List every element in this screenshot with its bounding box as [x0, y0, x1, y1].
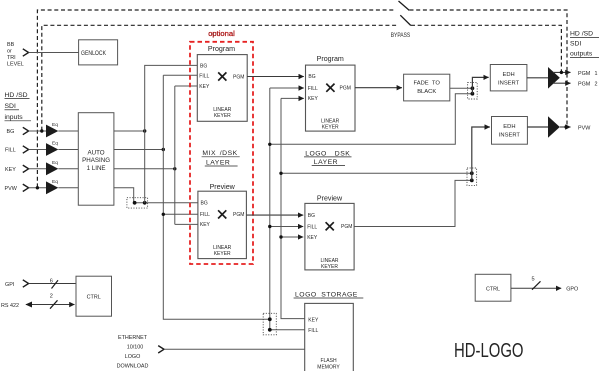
svg-text:FADE TO: FADE TO	[414, 80, 441, 86]
wire key bypass branch to PVW jumper	[281, 172, 472, 174]
svg-text:SDI: SDI	[570, 41, 581, 48]
wire preview2 PGM to PVW jumper	[354, 180, 472, 226]
wire ethernet to flash	[164, 348, 305, 350]
wire FILL to program1	[163, 74, 197, 76]
svg-text:BG: BG	[7, 129, 15, 135]
op keyer preview box	[198, 191, 247, 258]
junction dot flash fill	[268, 328, 272, 332]
wire BG input	[29, 130, 46, 132]
bypass outer dashed path (PVW bypass)	[37, 10, 567, 187]
svg-text:Program: Program	[317, 55, 344, 63]
bypass relay switch on outer path	[399, 1, 410, 10]
wire PVW output	[560, 126, 571, 128]
wire ctrl to GPO	[511, 287, 561, 289]
svg-text:INSERT: INSERT	[499, 133, 521, 139]
wire PVW input	[29, 187, 46, 189]
mixer X preview1	[218, 210, 226, 218]
svg-text:KEY: KEY	[308, 96, 319, 102]
svg-text:PGM: PGM	[578, 82, 591, 88]
svg-text:BG: BG	[308, 74, 315, 80]
wire PGM 2 output	[553, 82, 571, 84]
dsk keyer preview box	[305, 203, 354, 270]
PVW input arrow	[23, 184, 29, 191]
svg-text:BB: BB	[7, 42, 15, 48]
bus slash GPO	[532, 281, 541, 289]
wire genlock input	[29, 52, 79, 54]
wire FILL input	[29, 149, 46, 151]
genlock box	[79, 40, 118, 65]
bypass inner dashed path (PGM bypass)	[42, 25, 562, 130]
wire KEY to program1	[175, 85, 198, 87]
Eq amp KEY	[46, 162, 58, 175]
bus slash RS422	[50, 300, 58, 308]
svg-text:KEY: KEY	[307, 235, 318, 241]
svg-text:KEYER: KEYER	[321, 264, 338, 270]
svg-text:PVW: PVW	[5, 186, 18, 192]
wire PGM 1 output	[553, 71, 571, 73]
svg-text:GPI: GPI	[5, 282, 14, 288]
svg-text:BYPASS: BYPASS	[391, 32, 411, 39]
FILL input arrow	[23, 146, 29, 153]
junction dot KEY preview2	[279, 235, 282, 238]
svg-text:KEYER: KEYER	[322, 124, 339, 130]
svg-text:6: 6	[50, 279, 53, 285]
junction dot fill-bypass	[471, 92, 475, 96]
wire GPI to ctrl	[29, 283, 76, 285]
wire fill bypass branch to PGM jumper	[270, 94, 473, 145]
junction dot BG in jumper	[143, 201, 147, 205]
wire EDH1 to amp	[527, 77, 548, 79]
wire EDH2 to amp	[527, 126, 548, 128]
svg-text:ETHERNET: ETHERNET	[118, 335, 148, 341]
junction dot PGM1 bypass	[560, 71, 563, 74]
junction dot fill bypass tap	[268, 143, 271, 146]
svg-text:FILL: FILL	[5, 148, 16, 154]
GPI input arrow	[23, 280, 29, 287]
junction dot key-bypass	[470, 171, 474, 175]
svg-text:LEVEL: LEVEL	[7, 62, 24, 68]
mixer X program1	[218, 72, 226, 80]
svg-text:or: or	[7, 49, 12, 55]
junction dot PVW in jumper	[133, 201, 137, 205]
label BB or TRI LEVEL	[7, 42, 24, 68]
wire PVW amp to autophase	[58, 187, 78, 189]
svg-text:HD /SD: HD /SD	[5, 92, 28, 99]
svg-text:10/100: 10/100	[127, 345, 144, 351]
svg-text:Eq: Eq	[52, 179, 58, 185]
wire BG amp to autophase	[58, 130, 78, 132]
svg-text:HD /SD: HD /SD	[570, 30, 593, 37]
svg-text:KEY: KEY	[199, 84, 210, 90]
bypass relay switch on inner path	[400, 15, 411, 25]
svg-text:INSERT: INSERT	[498, 81, 520, 87]
svg-text:DSK: DSK	[335, 150, 350, 157]
wire jumper to EDH1	[472, 77, 488, 93]
svg-text:BG: BG	[201, 201, 208, 207]
svg-text:KEYER: KEYER	[214, 251, 231, 257]
KEY input arrow	[23, 165, 29, 172]
ethernet input arrow	[158, 346, 164, 353]
svg-text:Preview: Preview	[210, 183, 236, 191]
BG input arrow	[23, 127, 29, 134]
mixer X program2	[326, 84, 334, 92]
svg-text:Eq: Eq	[52, 141, 58, 147]
svg-text:1: 1	[595, 71, 598, 77]
wire fade-to-black out to jumper	[450, 87, 473, 89]
svg-text:inputs: inputs	[5, 114, 24, 121]
output amp PVW	[548, 116, 560, 138]
svg-text:BG: BG	[200, 63, 207, 69]
svg-text:EDH: EDH	[503, 124, 515, 130]
wire KEY dist to program2	[281, 97, 304, 99]
EDH insert box 2	[492, 117, 528, 145]
svg-text:HD-LOGO: HD-LOGO	[454, 340, 524, 362]
junction dot BG branch	[143, 129, 146, 132]
svg-text:FILL: FILL	[308, 86, 318, 92]
svg-text:PHASING: PHASING	[82, 157, 110, 164]
wire KEY dist to preview2	[281, 236, 303, 238]
svg-text:LAYER: LAYER	[206, 159, 230, 166]
svg-text:PVW: PVW	[578, 125, 591, 131]
junction dot FILL preview2	[268, 225, 271, 228]
svg-text:KEY: KEY	[308, 317, 319, 323]
junction dot flash key	[268, 317, 272, 321]
wire BG vertical to program1 and jumper	[145, 65, 198, 202]
svg-text:BG: BG	[308, 213, 315, 219]
svg-text:PGM: PGM	[578, 71, 591, 77]
junction dot preview pgm	[470, 179, 474, 183]
svg-text:FILL: FILL	[199, 73, 209, 79]
svg-text:KEY: KEY	[5, 167, 16, 173]
svg-text:FILL: FILL	[308, 328, 318, 334]
junction dot FILL preview1 tap	[162, 213, 165, 216]
junction dot PVW bypass	[36, 186, 39, 189]
jumper box preview BG select	[127, 198, 148, 208]
label HD /SD SDI inputs	[5, 92, 28, 121]
svg-text:GPO: GPO	[566, 287, 578, 293]
junction dot FILL branch	[162, 148, 165, 151]
op keyer program box	[197, 55, 247, 122]
junction dot KEY branch	[173, 167, 176, 170]
wire KEY dist vertical (flash key)	[281, 98, 305, 318]
dsk keyer program box	[306, 65, 356, 131]
svg-text:Eq: Eq	[52, 122, 58, 128]
label ETHERNET 10/100 LOGO DOWNLOAD	[117, 335, 149, 369]
svg-text:2: 2	[595, 82, 598, 88]
wire jumper to EDH2	[472, 127, 490, 180]
svg-text:outputs: outputs	[570, 51, 593, 58]
svg-text:KEY: KEY	[200, 222, 211, 228]
junction dot ftb out	[471, 86, 475, 90]
svg-text:AUTO: AUTO	[88, 150, 105, 157]
svg-text:DOWNLOAD: DOWNLOAD	[117, 363, 149, 369]
wire KEY input	[29, 168, 46, 170]
jumper box PGM EDH select	[468, 82, 478, 99]
EDH insert box 1	[490, 65, 527, 91]
wire BG autophase output	[114, 130, 145, 132]
wire FILL autophase output	[114, 149, 163, 151]
wire KEY autophase output	[114, 168, 175, 170]
wire KEY to preview1	[175, 223, 198, 225]
svg-text:Eq: Eq	[52, 160, 58, 166]
Eq amp PVW	[46, 181, 58, 194]
wire KEY amp to autophase	[58, 168, 78, 170]
wire program2 PGM to fade-to-black	[355, 87, 402, 89]
auto phasing box U1	[78, 113, 114, 206]
svg-text:CTRL: CTRL	[486, 287, 500, 293]
Eq amp FILL	[46, 143, 58, 156]
svg-text:MIX: MIX	[202, 150, 216, 157]
svg-text:LOGO: LOGO	[305, 150, 327, 157]
wire PVW autophase output to preview BG jumper	[114, 188, 198, 203]
genlock input arrow	[23, 49, 29, 56]
svg-text:LOGO: LOGO	[125, 354, 141, 360]
wire FILL to preview1	[163, 213, 198, 215]
svg-text:LOGO: LOGO	[295, 291, 317, 298]
svg-text:optional: optional	[208, 29, 235, 38]
svg-text:/DSK: /DSK	[220, 150, 238, 157]
svg-text:LAYER: LAYER	[314, 159, 338, 166]
svg-text:FILL: FILL	[200, 212, 210, 218]
wire preview1 PGM to preview2 BG	[246, 214, 303, 216]
flash memory box	[305, 303, 354, 371]
svg-text:2: 2	[50, 294, 53, 300]
svg-text:BLACK: BLACK	[417, 89, 436, 95]
svg-text:GENLOCK: GENLOCK	[81, 50, 107, 57]
mixer X preview2	[326, 222, 334, 230]
output amp PGM	[548, 67, 560, 89]
svg-text:FILL: FILL	[307, 224, 317, 230]
jumper box PVW EDH select	[467, 168, 477, 185]
svg-text:EDH: EDH	[502, 72, 514, 78]
svg-text:5: 5	[532, 277, 535, 283]
Eq amp BG	[46, 125, 58, 138]
label HD /SD SDI outputs	[570, 30, 593, 57]
jumper box flash key/fill	[263, 313, 276, 335]
svg-text:FLASH: FLASH	[320, 358, 337, 364]
svg-text:CTRL: CTRL	[87, 295, 101, 301]
fade to black box	[404, 74, 450, 101]
svg-text:PGM: PGM	[233, 212, 244, 218]
wire FILL dist to program2	[270, 87, 304, 89]
wire FILL amp to autophase	[58, 149, 78, 151]
wire RS422 bidirectional	[26, 304, 75, 306]
svg-text:TRI: TRI	[7, 55, 16, 61]
svg-text:KEYER: KEYER	[214, 113, 231, 119]
svg-text:Program: Program	[208, 45, 235, 53]
svg-text:SDI: SDI	[5, 103, 16, 110]
wire FILL dist to preview2	[270, 226, 303, 228]
svg-text:PGM: PGM	[341, 224, 352, 230]
svg-text:1 LINE: 1 LINE	[87, 165, 106, 172]
bus slash GPI	[52, 280, 59, 288]
junction dot BG bypass	[40, 129, 43, 132]
svg-text:PGM: PGM	[340, 86, 351, 92]
svg-text:RS 422: RS 422	[1, 303, 19, 309]
svg-text:STORAGE: STORAGE	[321, 291, 358, 298]
junction dot PVW bypass out	[564, 125, 567, 128]
ctrl box right	[475, 274, 511, 301]
wire program1 PGM to program2 BG	[247, 76, 304, 78]
wire FILL dist vertical (flash fill)	[270, 88, 305, 330]
svg-text:Preview: Preview	[317, 195, 343, 203]
svg-text:MEMORY: MEMORY	[317, 365, 340, 371]
wire FILL vertical program1/preview1/flash	[163, 75, 269, 319]
optional layer red dashed box	[190, 42, 253, 264]
wire KEY vertical	[174, 86, 176, 224]
ctrl box left	[76, 276, 112, 316]
svg-text:PGM: PGM	[233, 74, 244, 80]
junction dot key bypass tap	[279, 172, 282, 175]
